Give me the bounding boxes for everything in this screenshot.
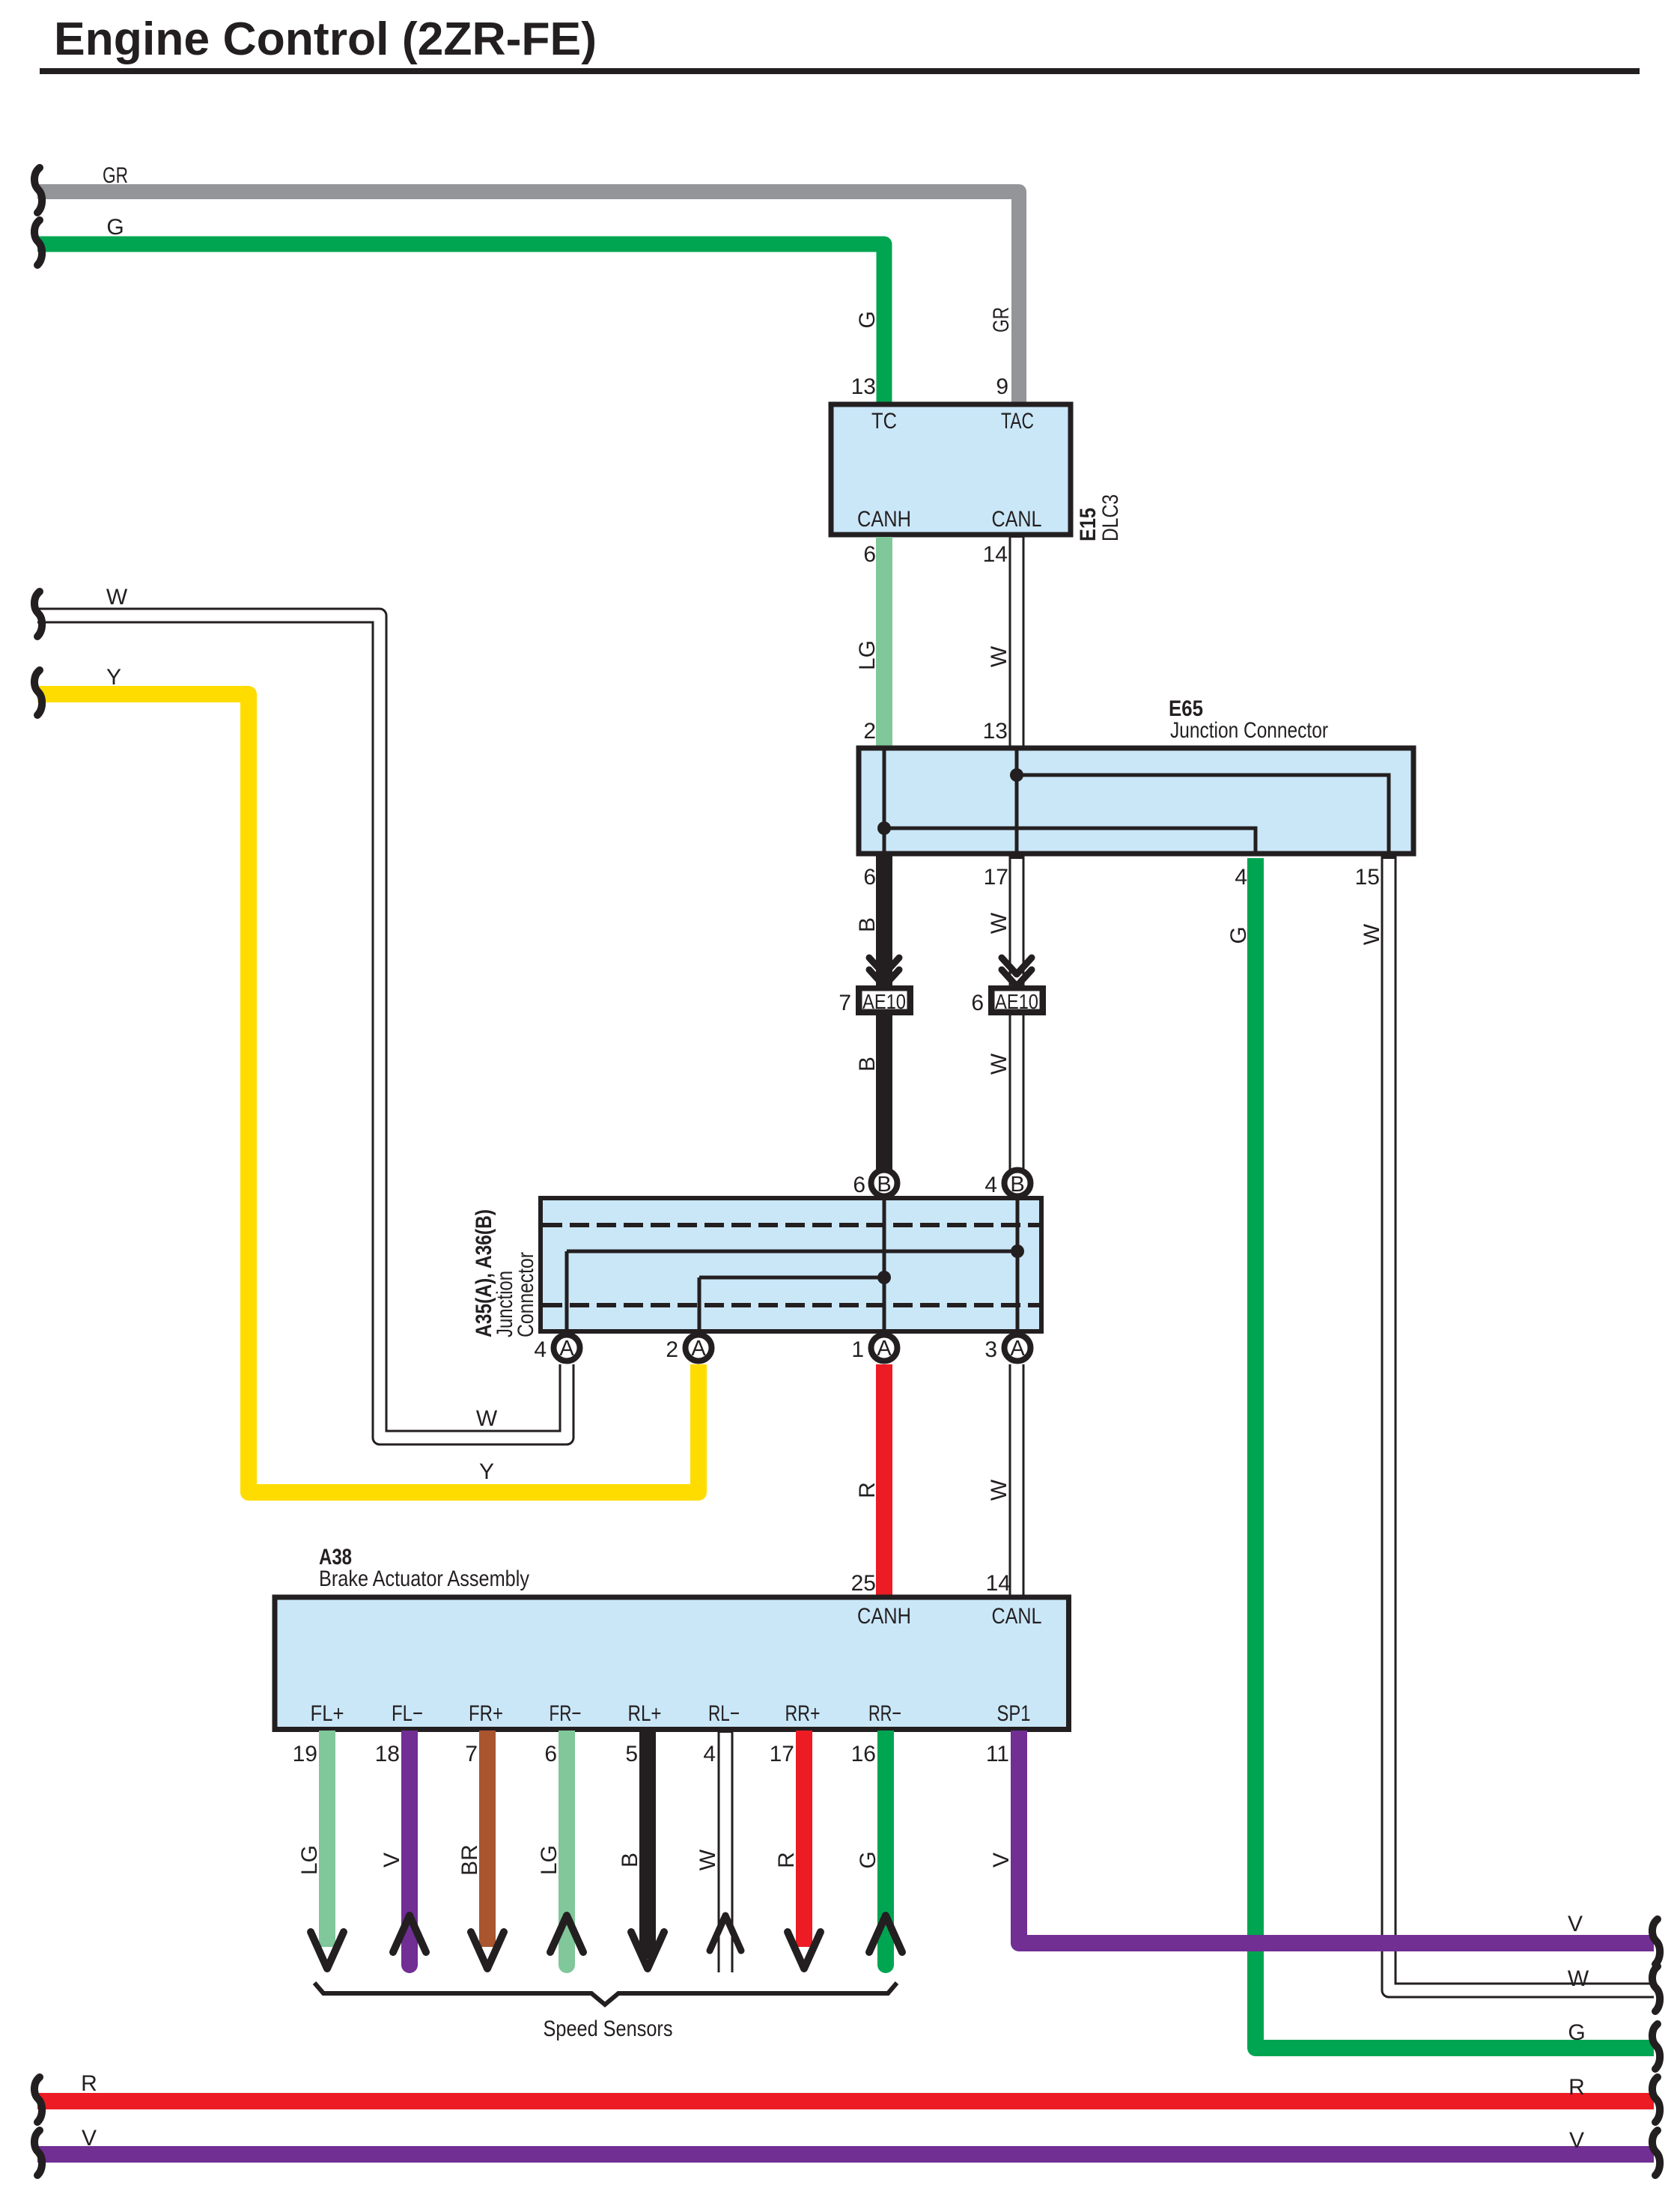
svg-text:SP1: SP1 [997,1701,1031,1726]
svg-text:G: G [1226,926,1251,944]
svg-text:25: 25 [851,1571,876,1596]
E65 internal wire pin13-pin17 [1015,748,1019,854]
svg-text:RL+: RL+ [628,1701,662,1726]
svg-text:BR: BR [457,1844,482,1876]
wire W E65 pin17 down to A35 [1009,856,1025,1170]
svg-text:FR+: FR+ [469,1701,503,1726]
svg-text:G: G [856,1851,880,1868]
wire Y A35 pin2 big loop to left [37,694,699,1492]
svg-text:FL+: FL+ [311,1701,344,1726]
break symbol W [34,592,42,636]
svg-text:W: W [476,1406,498,1431]
connector E15 DLC3 box [831,404,1071,535]
svg-text:W: W [696,1849,720,1871]
wire G E65 pin4 long down [1256,858,1654,2048]
svg-text:1: 1 [851,1337,864,1362]
svg-text:V: V [82,2126,97,2151]
svg-text:4: 4 [1235,865,1247,890]
svg-text:14: 14 [986,1571,1011,1596]
pin 4 A of A35 [554,1335,580,1361]
svg-text:Junction Connector: Junction Connector [1170,718,1328,743]
svg-text:9: 9 [996,374,1008,399]
wire W A35 pin3 to A38 CANL [1009,1364,1025,1597]
A35 junction dot [877,1271,891,1284]
E65 internal wire to pin 4 [884,828,1256,854]
arrow down FL+ [311,1932,344,1969]
svg-text:B: B [855,1057,880,1072]
svg-text:V: V [380,1853,404,1868]
wire LG FL+ down [319,1731,335,1947]
svg-text:RR+: RR+ [785,1701,821,1726]
svg-text:LG: LG [855,640,880,670]
svg-text:LG: LG [297,1845,322,1875]
brace speed sensors [314,1983,897,2005]
svg-text:LG: LG [537,1845,561,1875]
svg-text:14: 14 [983,542,1008,567]
svg-text:6: 6 [853,1173,865,1197]
pin 4 B of A35 [1005,1170,1031,1197]
svg-text:Speed Sensors: Speed Sensors [544,2017,673,2041]
break symbol Y [34,670,42,715]
svg-text:W: W [987,645,1011,667]
arrow chevrons W wire [1002,958,1032,986]
svg-text:V: V [1568,1912,1583,1936]
svg-text:7: 7 [465,1742,478,1766]
svg-text:13: 13 [851,374,876,399]
break symbol G right [1652,2024,1660,2069]
E65 junction dot [877,821,891,835]
svg-text:3: 3 [984,1337,997,1362]
wire LG CANH to E65 pin 2 [876,537,892,747]
arrow down RL+ filled [631,1932,664,1969]
arrow up FR- [550,1915,583,1952]
E65 internal wire to pin 15 [1017,775,1389,854]
svg-text:R: R [1568,2075,1585,2100]
wire R RR+ down [796,1731,812,1947]
svg-text:W: W [1568,1966,1589,1991]
svg-text:G: G [106,215,124,240]
svg-text:A: A [1010,1337,1025,1361]
splice AE10 left [856,985,913,1015]
wire V bottom bus [37,2146,1654,2163]
wire V FL- down [401,1731,418,1965]
svg-text:13: 13 [983,719,1008,744]
svg-text:FL−: FL− [392,1701,423,1726]
svg-text:R: R [81,2071,97,2096]
arrow chevrons B wire [869,958,899,986]
connector E65 junction box [859,748,1413,854]
A35 junction dot [1011,1245,1024,1258]
pin 2 A of A35 [686,1335,712,1361]
svg-text:4: 4 [534,1337,547,1362]
svg-text:DLC3: DLC3 [1098,494,1123,541]
svg-text:W: W [987,1479,1011,1501]
E65 internal wire pin2-pin6 [883,748,886,854]
A35 internal wire to A4 [567,1251,1017,1334]
svg-text:R: R [774,1852,799,1868]
wire GR horizontal to TAC [37,192,1019,404]
wire R bottom bus [37,2093,1654,2109]
svg-text:FR−: FR− [550,1701,582,1726]
break symbol V right [1652,1919,1660,1964]
E65 junction dot [1010,768,1023,782]
arrow down FR+ [471,1932,504,1969]
svg-text:Brake Actuator Assembly: Brake Actuator Assembly [319,1567,529,1591]
svg-text:CANH: CANH [857,507,911,532]
A35 dashed line lower [543,1303,1039,1307]
svg-text:19: 19 [293,1742,317,1766]
wire W CANL to E65 pin 13 [1009,537,1025,747]
svg-text:Connector: Connector [514,1252,538,1337]
A35 internal wire to A2 [699,1277,884,1334]
pin 6 B of A35 [871,1170,898,1197]
svg-text:CANL: CANL [992,507,1042,532]
svg-text:CANL: CANL [992,1604,1042,1629]
svg-text:V: V [989,1853,1014,1868]
svg-text:4: 4 [984,1173,997,1197]
wire BR FR+ down [479,1731,496,1947]
connector A38 brake actuator box [275,1597,1069,1730]
svg-text:TC: TC [871,409,897,434]
svg-text:W: W [1360,923,1384,945]
pin 1 A of A35 [871,1335,898,1361]
arrow up FL- [393,1915,426,1952]
svg-text:W: W [987,1053,1011,1075]
arrow up RR- [869,1915,902,1952]
svg-text:R: R [855,1482,880,1498]
svg-text:17: 17 [984,865,1008,890]
svg-text:RL−: RL− [708,1701,740,1726]
svg-text:B: B [618,1853,642,1868]
break symbol GR [34,168,42,213]
pin 3 A of A35 [1005,1335,1031,1361]
svg-text:Y: Y [106,665,121,690]
svg-text:6: 6 [971,991,984,1015]
wire G RR- down [877,1731,894,1965]
wire W E65 pin15 long down [1389,856,1654,1990]
svg-text:A: A [877,1337,892,1361]
svg-text:A: A [559,1337,574,1361]
svg-text:Y: Y [479,1459,494,1484]
svg-text:B: B [1010,1173,1024,1197]
svg-text:Engine Control (2ZR-FE): Engine Control (2ZR-FE) [54,13,597,65]
A35 dashed line upper [543,1223,1039,1227]
wire B E65 pin6 to A35 [876,856,892,1170]
wire B RL+ down [639,1731,656,1959]
svg-text:V: V [1569,2128,1584,2153]
svg-text:RR−: RR− [868,1701,901,1726]
svg-text:G: G [1568,2020,1585,2045]
svg-text:2: 2 [666,1337,678,1362]
svg-text:GR: GR [989,307,1014,332]
svg-text:B: B [877,1173,891,1197]
svg-text:5: 5 [625,1742,638,1766]
svg-text:6: 6 [544,1742,557,1766]
arrow up RL- [710,1915,741,1951]
svg-text:17: 17 [770,1742,794,1766]
svg-text:B: B [855,917,880,932]
svg-text:6: 6 [863,542,876,567]
svg-text:2: 2 [863,719,876,744]
break symbol G [34,220,42,265]
svg-text:W: W [106,585,128,610]
break symbol W right [1652,1966,1660,2011]
A35 internal wire B6-A1 [883,1198,886,1334]
wire V SP1 down and right [1019,1731,1654,1943]
svg-text:A: A [691,1337,706,1361]
wire R A35 pin1 to A38 CANH [876,1364,892,1597]
svg-text:TAC: TAC [1001,409,1034,434]
title underline [40,68,1640,74]
svg-text:AE10: AE10 [995,990,1038,1013]
svg-text:W: W [987,912,1011,934]
wire LG FR- down [559,1731,575,1965]
svg-text:E15: E15 [1076,508,1101,541]
wire G horizontal to TC [37,244,884,404]
svg-text:7: 7 [839,991,851,1015]
A35 internal wire B4-A3 [1016,1198,1020,1334]
svg-text:GR: GR [103,163,128,188]
connector A35/A36 junction box [541,1198,1041,1331]
svg-text:G: G [855,311,880,328]
arrow down RR+ [788,1932,821,1969]
svg-text:4: 4 [703,1742,716,1766]
svg-text:CANH: CANH [857,1604,911,1629]
svg-text:18: 18 [375,1742,400,1766]
svg-text:15: 15 [1355,865,1380,890]
svg-text:11: 11 [986,1742,1009,1766]
wire W A35 pin4 big loop to left [37,616,567,1438]
svg-text:6: 6 [863,865,876,890]
splice AE10 right [988,985,1046,1015]
wire W RL- down [718,1731,734,1972]
svg-text:16: 16 [851,1742,876,1766]
svg-text:AE10: AE10 [862,990,906,1013]
